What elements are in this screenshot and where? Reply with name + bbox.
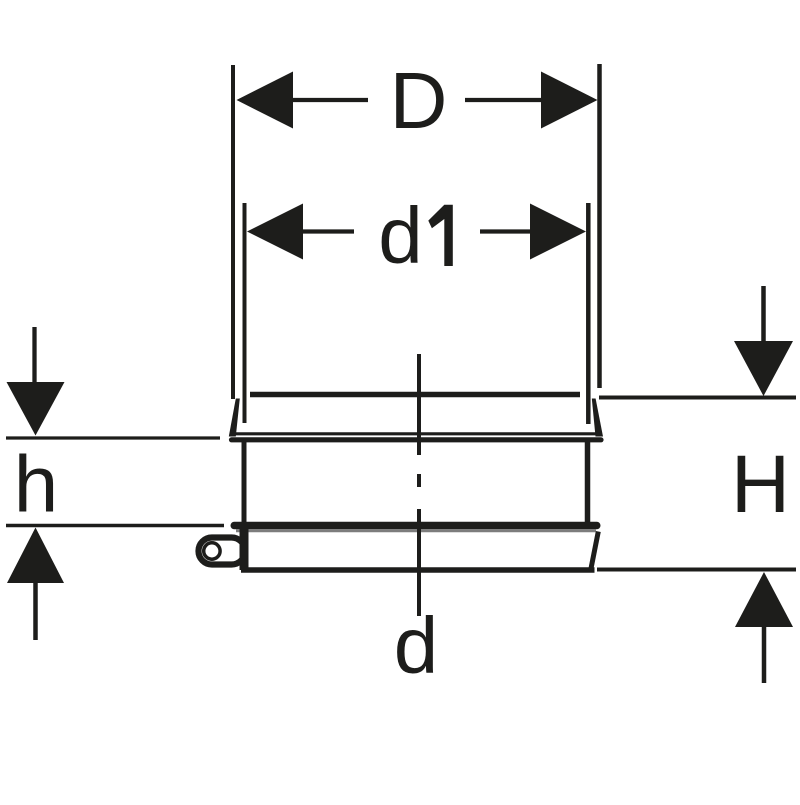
svg-text:H: H [731,439,790,530]
svg-text:d: d [378,191,423,280]
svg-text:d: d [394,601,439,690]
svg-text:h: h [14,440,59,529]
svg-text:D: D [390,56,448,145]
